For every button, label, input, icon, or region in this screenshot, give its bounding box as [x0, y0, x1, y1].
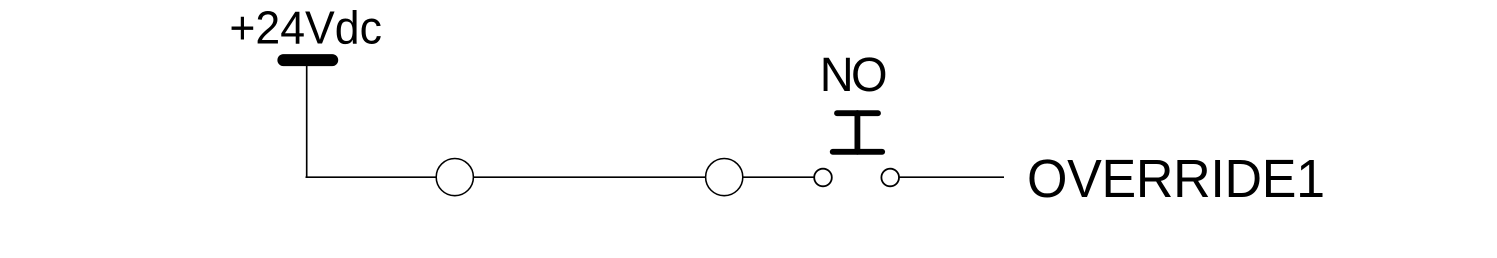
svg-text:+24Vdc: +24Vdc: [229, 2, 381, 54]
svg-text:NO: NO: [820, 49, 886, 103]
svg-text:OVERRIDE1: OVERRIDE1: [1027, 149, 1325, 209]
